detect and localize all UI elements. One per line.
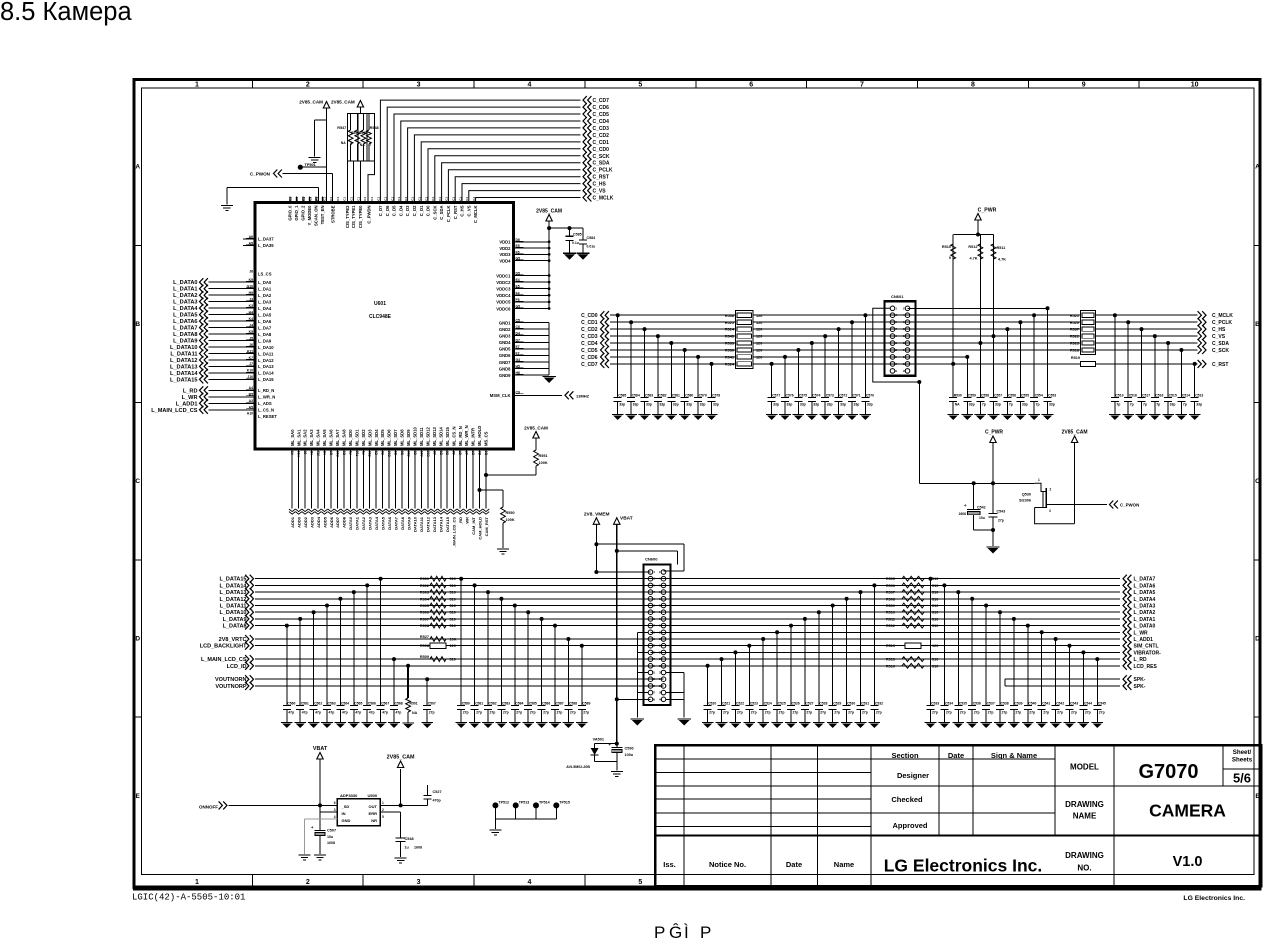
svg-text:4: 4 <box>528 879 532 886</box>
svg-text:ADD6: ADD6 <box>329 516 334 528</box>
svg-text:ML_SD2: ML_SD2 <box>361 429 366 446</box>
svg-text:C507: C507 <box>428 702 436 706</box>
svg-text:C588: C588 <box>569 702 577 706</box>
svg-text:DATA1: DATA1 <box>355 516 360 530</box>
svg-text:GND3: GND3 <box>499 334 511 339</box>
svg-text:ADD7: ADD7 <box>335 516 340 528</box>
svg-text:10K: 10K <box>450 638 457 642</box>
svg-text:C530: C530 <box>847 702 855 706</box>
svg-text:33p: 33p <box>827 403 833 407</box>
svg-text:C576: C576 <box>786 394 794 398</box>
svg-text:VA501: VA501 <box>593 738 604 742</box>
svg-text:L_DATA2: L_DATA2 <box>173 293 197 299</box>
svg-text:VDD1: VDD1 <box>499 240 511 245</box>
svg-text:C543: C543 <box>1070 702 1078 706</box>
svg-text:510: 510 <box>450 624 456 628</box>
svg-text:C_CD5: C_CD5 <box>581 348 598 354</box>
svg-text:GND: GND <box>342 818 351 823</box>
svg-text:C507: C507 <box>327 829 336 833</box>
svg-text:_SD: _SD <box>341 804 350 809</box>
svg-text:CAM_INT: CAM_INT <box>471 516 476 534</box>
svg-text:27p: 27p <box>862 711 868 715</box>
svg-text:DATA3: DATA3 <box>368 516 373 530</box>
svg-text:510: 510 <box>932 658 938 662</box>
svg-text:R608: R608 <box>420 624 429 628</box>
svg-text:1: 1 <box>195 879 199 886</box>
svg-text:C540: C540 <box>1028 702 1036 706</box>
svg-text:E: E <box>136 793 141 800</box>
svg-text:510: 510 <box>932 604 938 608</box>
svg-text:27p: 27p <box>974 711 980 715</box>
svg-text:ML_SA2: ML_SA2 <box>303 429 308 446</box>
svg-text:L_ADD1: L_ADD1 <box>176 401 198 407</box>
svg-text:DATA10: DATA10 <box>413 516 418 532</box>
svg-text:C_VS: C_VS <box>1212 334 1226 340</box>
svg-text:R605: R605 <box>420 604 429 608</box>
svg-text:R512: R512 <box>886 624 895 628</box>
svg-text:C: C <box>135 478 140 485</box>
svg-text:L_ADD1: L_ADD1 <box>1134 637 1154 643</box>
svg-text:L_DATA8: L_DATA8 <box>173 332 197 338</box>
svg-text:27p: 27p <box>988 711 994 715</box>
svg-text:L_DATA12: L_DATA12 <box>220 597 247 603</box>
svg-text:+: + <box>608 742 611 747</box>
svg-text:LS_CS: LS_CS <box>258 272 272 277</box>
svg-text:L_DATA3: L_DATA3 <box>173 300 197 306</box>
svg-text:L_RD: L_RD <box>1134 657 1147 663</box>
svg-text:27p: 27p <box>932 711 938 715</box>
svg-text:C542: C542 <box>1056 702 1064 706</box>
svg-text:L_DATA1: L_DATA1 <box>173 287 197 293</box>
svg-text:27p: 27p <box>998 519 1004 523</box>
svg-text:27p: 27p <box>530 711 536 715</box>
svg-text:C_MCLK: C_MCLK <box>1212 313 1233 319</box>
svg-text:33p: 33p <box>787 403 793 407</box>
svg-text:ML_SA1: ML_SA1 <box>296 429 301 446</box>
svg-text:CN600: CN600 <box>645 557 658 562</box>
svg-text:4.7K: 4.7K <box>969 257 977 261</box>
svg-text:27p: 27p <box>1015 711 1021 715</box>
svg-text:C518: C518 <box>1129 394 1137 398</box>
svg-text:C_RST: C_RST <box>593 175 609 181</box>
svg-text:C_VS: C_VS <box>593 189 607 195</box>
svg-text:R548: R548 <box>370 126 379 130</box>
svg-text:Designer: Designer <box>897 771 929 780</box>
svg-text:C566: C566 <box>368 702 376 706</box>
svg-text:33p: 33p <box>1170 403 1176 407</box>
svg-text:510: 510 <box>932 591 938 595</box>
svg-text:4: 4 <box>334 815 336 819</box>
svg-text:C_D2: C_D2 <box>412 205 417 216</box>
svg-text:TP514: TP514 <box>539 801 550 805</box>
svg-text:CAM_RST: CAM_RST <box>484 516 489 536</box>
svg-text:R538: R538 <box>725 314 734 318</box>
svg-text:C571: C571 <box>853 394 861 398</box>
svg-text:R512: R512 <box>968 245 977 249</box>
svg-text:C586: C586 <box>542 702 550 706</box>
svg-text:C1: C1 <box>404 197 408 201</box>
svg-text:C_CD0: C_CD0 <box>581 313 598 319</box>
svg-text:L_DA37: L_DA37 <box>258 237 274 242</box>
svg-text:C534: C534 <box>945 702 953 706</box>
svg-text:27p: 27p <box>463 711 469 715</box>
svg-text:C_D1: C_D1 <box>419 205 424 216</box>
svg-text:C_HS: C_HS <box>460 205 465 216</box>
svg-text:C524: C524 <box>764 702 772 706</box>
svg-text:L_ADS: L_ADS <box>258 401 272 406</box>
svg-text:C516: C516 <box>1155 394 1163 398</box>
svg-text:ML_SD6: ML_SD6 <box>387 429 392 446</box>
svg-text:VDDC2: VDDC2 <box>496 280 511 285</box>
svg-text:C542: C542 <box>977 506 986 510</box>
svg-text:33p: 33p <box>813 403 819 407</box>
svg-text:27p: 27p <box>820 711 826 715</box>
svg-text:27p: 27p <box>516 711 522 715</box>
svg-text:0: 0 <box>369 143 371 147</box>
svg-text:1606: 1606 <box>958 512 966 516</box>
svg-text:C573: C573 <box>826 394 834 398</box>
svg-text:2: 2 <box>1050 488 1052 492</box>
svg-text:C_CD3: C_CD3 <box>593 126 610 132</box>
svg-text:SI2306: SI2306 <box>1019 499 1031 503</box>
svg-text:ML_HOLD: ML_HOLD <box>477 426 482 446</box>
svg-text:GND6: GND6 <box>499 353 511 358</box>
svg-text:13MHZ: 13MHZ <box>576 393 590 398</box>
svg-text:R525: R525 <box>725 321 734 325</box>
svg-text:2V8_VRTC: 2V8_VRTC <box>219 637 247 643</box>
svg-text:120: 120 <box>450 644 456 648</box>
svg-text:A: A <box>1255 164 1260 171</box>
svg-text:C_CD1: C_CD1 <box>581 320 598 326</box>
svg-text:C_HS: C_HS <box>593 182 607 188</box>
svg-text:27p: 27p <box>765 711 771 715</box>
svg-text:ADD3: ADD3 <box>309 516 314 528</box>
svg-text:33p: 33p <box>840 403 846 407</box>
svg-text:R513: R513 <box>886 644 895 648</box>
svg-text:C_PWR: C_PWR <box>978 208 997 214</box>
svg-text:C_RST: C_RST <box>453 205 458 219</box>
svg-text:C584: C584 <box>632 394 640 398</box>
svg-text:C1: C1 <box>356 197 360 201</box>
svg-text:33p: 33p <box>773 403 779 407</box>
svg-text:120: 120 <box>756 349 762 353</box>
svg-text:R501: R501 <box>410 702 418 706</box>
svg-text:NA: NA <box>412 711 418 715</box>
svg-text:C517: C517 <box>1142 394 1150 398</box>
svg-text:C581: C581 <box>475 702 483 706</box>
svg-text:C1: C1 <box>370 197 374 201</box>
svg-text:47p: 47p <box>355 711 361 715</box>
svg-text:C_CD2: C_CD2 <box>581 327 598 333</box>
svg-text:510: 510 <box>932 624 938 628</box>
svg-text:L_DA12: L_DA12 <box>258 358 274 363</box>
svg-text:ML_SA5: ML_SA5 <box>322 429 327 446</box>
svg-text:2V85_CAM: 2V85_CAM <box>524 426 548 431</box>
svg-text:33p: 33p <box>633 403 639 407</box>
svg-text:C_CD7: C_CD7 <box>581 362 598 368</box>
svg-text:ML_SD1: ML_SD1 <box>354 429 359 446</box>
svg-text:120: 120 <box>756 356 762 360</box>
svg-text:510: 510 <box>450 604 456 608</box>
svg-text:510: 510 <box>450 658 456 662</box>
svg-text:L_RD: L_RD <box>183 388 198 394</box>
svg-text:6: 6 <box>749 81 753 88</box>
svg-text:C523: C523 <box>750 702 758 706</box>
svg-text:L_DA6: L_DA6 <box>258 319 272 324</box>
svg-text:C567: C567 <box>381 702 389 706</box>
svg-text:VDDC3: VDDC3 <box>496 287 511 292</box>
svg-text:510: 510 <box>932 597 938 601</box>
svg-text:CAM_HOLD: CAM_HOLD <box>477 517 482 540</box>
svg-text:TP513: TP513 <box>519 801 530 805</box>
svg-text:C536: C536 <box>973 702 981 706</box>
svg-text:C_D4: C_D4 <box>398 205 403 216</box>
svg-text:C_D3: C_D3 <box>405 205 410 216</box>
svg-text:ML_SD7: ML_SD7 <box>393 429 398 446</box>
svg-text:33p: 33p <box>1049 403 1055 407</box>
svg-text:C1: C1 <box>336 197 340 201</box>
svg-text:R511: R511 <box>886 617 895 621</box>
svg-text:C533: C533 <box>931 702 939 706</box>
svg-text:GND7: GND7 <box>499 360 511 365</box>
svg-text:C532: C532 <box>875 702 883 706</box>
svg-text:C_D7: C_D7 <box>378 205 383 216</box>
svg-text:ADD8: ADD8 <box>342 516 347 528</box>
svg-text:C526: C526 <box>792 702 800 706</box>
svg-text:DATA8: DATA8 <box>400 516 405 530</box>
svg-text:ML_SA0: ML_SA0 <box>290 429 295 446</box>
svg-text:V1.0: V1.0 <box>1173 854 1203 870</box>
svg-text:C1: C1 <box>424 197 428 201</box>
svg-text:C537: C537 <box>987 702 995 706</box>
svg-text:L_DATA6: L_DATA6 <box>173 319 197 325</box>
svg-text:C_PCLK: C_PCLK <box>1212 320 1232 326</box>
svg-text:27p: 27p <box>1071 711 1077 715</box>
svg-text:27p: 27p <box>848 711 854 715</box>
svg-text:R518: R518 <box>1070 349 1079 353</box>
svg-text:ML_INTR: ML_INTR <box>471 428 476 446</box>
svg-text:DATA0: DATA0 <box>348 516 353 530</box>
svg-text:2V85_CAM: 2V85_CAM <box>387 755 415 761</box>
svg-text:ML_SD13: ML_SD13 <box>432 426 437 446</box>
svg-text:L_MAIN_LCD_CS: L_MAIN_LCD_CS <box>201 657 247 663</box>
svg-text:L_DATA11: L_DATA11 <box>220 604 247 610</box>
svg-text:LCD_ID: LCD_ID <box>227 664 247 670</box>
svg-text:GND8: GND8 <box>499 366 511 371</box>
svg-text:_MAIN_LCD_CS: _MAIN_LCD_CS <box>452 517 457 549</box>
svg-text:VDDC4: VDDC4 <box>496 293 511 298</box>
svg-text:TP501: TP501 <box>305 163 316 167</box>
svg-text:L_DA8: L_DA8 <box>258 332 272 337</box>
svg-text:ADD4: ADD4 <box>316 516 321 528</box>
svg-text:0.01u: 0.01u <box>587 245 596 249</box>
svg-text:ML_WR_N: ML_WR_N <box>464 425 469 446</box>
svg-text:C1: C1 <box>418 197 422 201</box>
svg-text:10: 10 <box>1191 81 1199 88</box>
svg-text:27p: 27p <box>834 711 840 715</box>
svg-text:R547: R547 <box>337 126 346 130</box>
svg-text:SIM_CNTL: SIM_CNTL <box>1134 644 1159 650</box>
svg-text:GND9: GND9 <box>499 373 511 378</box>
svg-text:27p: 27p <box>946 711 952 715</box>
svg-text:VDD2: VDD2 <box>499 246 511 251</box>
svg-text:33p: 33p <box>969 403 975 407</box>
svg-text:C522: C522 <box>736 702 744 706</box>
svg-text:R511: R511 <box>997 246 1006 250</box>
svg-text:DRAWING: DRAWING <box>1065 800 1104 809</box>
svg-text:LG Electronics Inc.: LG Electronics Inc. <box>884 856 1043 876</box>
svg-text:R550: R550 <box>506 511 515 515</box>
svg-text:4.7K: 4.7K <box>998 258 1006 262</box>
svg-text:R545: R545 <box>725 335 734 339</box>
svg-text:ML_SD4: ML_SD4 <box>374 429 379 446</box>
svg-text:C513: C513 <box>1195 394 1203 398</box>
svg-text:C520: C520 <box>708 702 716 706</box>
svg-text:R601: R601 <box>420 577 429 581</box>
svg-text:7p: 7p <box>1183 403 1187 407</box>
svg-text:1u: 1u <box>405 846 409 850</box>
svg-text:L_DATA9: L_DATA9 <box>173 339 197 345</box>
svg-text:7p: 7p <box>1009 403 1013 407</box>
svg-text:R515: R515 <box>886 658 895 662</box>
svg-text:C_CD3: C_CD3 <box>581 334 598 340</box>
svg-text:33p: 33p <box>1196 403 1202 407</box>
svg-text:R508: R508 <box>420 644 429 648</box>
svg-text:C574: C574 <box>812 394 820 398</box>
svg-text:R607: R607 <box>420 617 429 621</box>
svg-text:TP515: TP515 <box>559 801 570 805</box>
svg-text:L_DATA7: L_DATA7 <box>173 326 197 332</box>
svg-text:5: 5 <box>638 81 642 88</box>
svg-text:33p: 33p <box>673 403 679 407</box>
svg-text:C514: C514 <box>1182 394 1190 398</box>
svg-text:D: D <box>1255 636 1260 643</box>
svg-text:2V85_CAM: 2V85_CAM <box>331 100 355 105</box>
svg-text:C1: C1 <box>384 197 388 201</box>
svg-text:C1: C1 <box>343 197 347 201</box>
svg-text:ADD5: ADD5 <box>322 516 327 528</box>
svg-text:120: 120 <box>756 321 762 325</box>
svg-text:TP512: TP512 <box>498 801 509 805</box>
svg-text:NAME: NAME <box>1073 812 1097 821</box>
svg-text:27p: 27p <box>490 711 496 715</box>
svg-text:33p: 33p <box>659 403 665 407</box>
svg-text:C557: C557 <box>994 394 1002 398</box>
svg-text:47p: 47p <box>329 711 335 715</box>
svg-text:ML_CS_N: ML_CS_N <box>451 426 456 446</box>
svg-text:C563: C563 <box>328 702 336 706</box>
svg-text:CIS_TYPE2: CIS_TYPE2 <box>345 205 350 228</box>
svg-text:L_DATA4: L_DATA4 <box>173 306 198 312</box>
svg-text:0: 0 <box>949 256 951 260</box>
svg-text:DATA13: DATA13 <box>432 516 437 532</box>
svg-text:100K: 100K <box>506 518 515 522</box>
svg-text:33p: 33p <box>619 403 625 407</box>
svg-text:ML_SA3: ML_SA3 <box>309 429 314 446</box>
svg-text:510: 510 <box>932 584 938 588</box>
svg-text:7p: 7p <box>1116 403 1120 407</box>
svg-text:7p: 7p <box>1130 403 1134 407</box>
svg-text:R505: R505 <box>886 577 895 581</box>
svg-text:C554: C554 <box>1035 394 1043 398</box>
svg-text:L_DATA9: L_DATA9 <box>223 617 247 623</box>
svg-text:C544: C544 <box>1084 702 1092 706</box>
svg-text:L_RD_N: L_RD_N <box>258 388 274 393</box>
svg-text:100K: 100K <box>539 461 548 465</box>
svg-text:C583: C583 <box>502 702 510 706</box>
svg-text:5: 5 <box>382 815 384 819</box>
svg-text:C590: C590 <box>625 747 634 751</box>
svg-text:33p: 33p <box>1022 403 1028 407</box>
svg-text:C579: C579 <box>699 394 707 398</box>
svg-text:SPK-: SPK- <box>1134 684 1146 690</box>
svg-text:Sheets: Sheets <box>1232 757 1253 764</box>
svg-text:J8: J8 <box>249 270 253 274</box>
svg-text:VOUTNORN: VOUTNORN <box>215 677 247 683</box>
svg-text:GND5: GND5 <box>499 347 511 352</box>
svg-text:C_PWON: C_PWON <box>250 172 271 177</box>
svg-text:NA: NA <box>341 141 346 145</box>
svg-text:R604: R604 <box>420 597 430 601</box>
svg-text:ADD0: ADD0 <box>297 516 302 528</box>
svg-text:C561: C561 <box>301 702 309 706</box>
svg-text:27p: 27p <box>583 711 589 715</box>
svg-text:C_PCLK: C_PCLK <box>446 206 451 223</box>
svg-text:VOUTNORP: VOUTNORP <box>215 684 247 690</box>
svg-text:L_DA15: L_DA15 <box>258 377 274 382</box>
svg-text:C548: C548 <box>405 837 414 841</box>
svg-text:Section: Section <box>891 751 919 760</box>
svg-text:DATA2: DATA2 <box>361 516 366 530</box>
svg-text:R537: R537 <box>1070 328 1079 332</box>
svg-text:DATA12: DATA12 <box>426 516 431 532</box>
svg-text:27p: 27p <box>557 711 563 715</box>
svg-text:C_SDA: C_SDA <box>439 206 444 220</box>
svg-text:ML_SD11: ML_SD11 <box>419 427 424 446</box>
svg-text:5/6: 5/6 <box>1233 771 1251 786</box>
svg-text:L_DA1: L_DA1 <box>258 287 272 292</box>
svg-text:R602: R602 <box>420 584 429 588</box>
svg-text:Q530: Q530 <box>1022 493 1031 497</box>
svg-text:U500: U500 <box>368 793 378 798</box>
svg-text:DATA6: DATA6 <box>387 516 392 530</box>
svg-text:L_DA5: L_DA5 <box>258 312 272 317</box>
svg-text:DATA15: DATA15 <box>445 516 450 532</box>
svg-text:C525: C525 <box>778 702 786 706</box>
svg-text:Sheet/: Sheet/ <box>1233 749 1252 756</box>
svg-text:C_CD5: C_CD5 <box>593 112 610 118</box>
svg-text:27p: 27p <box>751 711 757 715</box>
svg-text:47p: 47p <box>302 711 308 715</box>
svg-text:VDD3: VDD3 <box>499 252 511 257</box>
svg-text:C1: C1 <box>465 197 469 201</box>
svg-text:+: + <box>311 825 314 830</box>
svg-text:C_D6: C_D6 <box>385 205 390 216</box>
svg-text:P: P <box>700 923 711 939</box>
svg-text:ML_SA7: ML_SA7 <box>335 429 340 446</box>
svg-text:L_DA3: L_DA3 <box>258 299 272 304</box>
svg-text:Checked: Checked <box>891 795 923 804</box>
svg-text:C_CD4: C_CD4 <box>581 341 598 347</box>
svg-text:ADD1: ADD1 <box>290 516 295 528</box>
svg-text:C_CD7: C_CD7 <box>593 98 610 104</box>
svg-text:33p: 33p <box>995 403 1001 407</box>
svg-text:NR: NR <box>371 818 377 823</box>
svg-text:ML_SA6: ML_SA6 <box>329 429 334 446</box>
svg-text:ONNOFF: ONNOFF <box>199 804 218 809</box>
svg-text:27p: 27p <box>737 711 743 715</box>
svg-text:6: 6 <box>334 801 336 805</box>
